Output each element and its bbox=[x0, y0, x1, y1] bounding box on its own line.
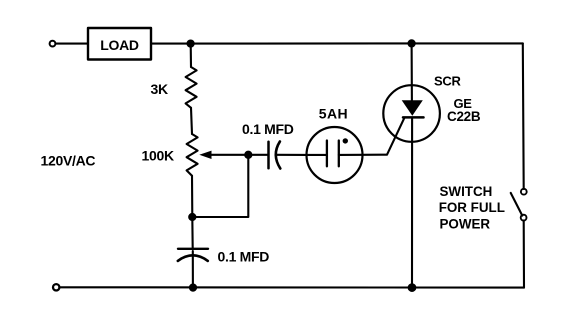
terminal top-left bbox=[50, 41, 56, 47]
svg-text:LOAD: LOAD bbox=[100, 37, 139, 53]
wire junction down to capacitor C2 bbox=[191, 217, 193, 249]
svg-text:0.1 MFD: 0.1 MFD bbox=[218, 249, 270, 265]
trigger device gas dot bbox=[343, 138, 348, 143]
wire LOAD to top-right corner (top rail) bbox=[152, 42, 523, 44]
resistor R1 3K bbox=[186, 67, 197, 108]
svg-text:POWER: POWER bbox=[440, 216, 491, 231]
wire switch to bottom rail bbox=[523, 221, 525, 288]
wire 3K to 100K bbox=[191, 108, 192, 134]
wire junction down to 3K bbox=[190, 44, 192, 67]
svg-text:SWITCH: SWITCH bbox=[440, 184, 493, 199]
trigger device V1 5AH circle bbox=[307, 127, 363, 183]
wire gate from trigger device to SCR bbox=[362, 118, 404, 155]
SCR U1 circle bbox=[383, 85, 440, 142]
switch S1 bottom contact bbox=[521, 215, 527, 221]
potentiometer R2 100K bbox=[187, 134, 198, 176]
wiper wire bbox=[209, 154, 248, 156]
SCR triangle bbox=[402, 100, 423, 116]
LOAD box bbox=[88, 28, 151, 60]
svg-text:3K: 3K bbox=[151, 81, 168, 97]
trigger device internal right plate bbox=[338, 141, 340, 167]
node pot bottom junction bbox=[189, 214, 195, 220]
svg-text:0.1 MFD: 0.1 MFD bbox=[242, 121, 294, 137]
switch S1 blade bbox=[511, 193, 523, 216]
SCR anode wire bbox=[411, 43, 413, 101]
trigger device internal right lead bbox=[339, 154, 363, 156]
capacitor C1 0.1 MFD curved plate bbox=[276, 142, 281, 169]
svg-text:100K: 100K bbox=[142, 147, 174, 163]
node wiper junction bbox=[245, 152, 251, 158]
SCR cathode bar bbox=[403, 116, 424, 119]
capacitor C2 0.1 MFD top plate bbox=[178, 248, 208, 250]
terminal bottom-left bbox=[53, 284, 59, 290]
svg-text:SCR: SCR bbox=[434, 74, 461, 89]
wiper arrowhead bbox=[199, 151, 211, 159]
node top junction at 3K bbox=[188, 41, 194, 47]
capacitor C2 0.1 MFD curved plate bbox=[178, 255, 208, 261]
wire terminal to LOAD bbox=[56, 43, 87, 45]
svg-text:FOR FULL: FOR FULL bbox=[439, 200, 505, 215]
switch S1 top contact bbox=[521, 189, 527, 195]
node bottom junction at SCR cathode bbox=[409, 284, 416, 291]
wire wiper junction to capacitor C1 bbox=[248, 154, 268, 156]
wire capacitor C1 to trigger device bbox=[276, 154, 307, 156]
bottom rail wire bbox=[60, 286, 524, 288]
wire pot bottom bbox=[191, 176, 193, 217]
svg-text:120V/AC: 120V/AC bbox=[41, 152, 96, 168]
svg-text:5AH: 5AH bbox=[319, 106, 348, 122]
node top junction at SCR anode bbox=[409, 40, 415, 46]
capacitor C1 0.1 MFD straight plate bbox=[267, 142, 270, 168]
node bottom junction at C2 bbox=[190, 285, 196, 291]
SCR cathode wire to bottom rail bbox=[411, 117, 413, 287]
trigger device internal left plate bbox=[326, 141, 328, 167]
wire right rail top to switch bbox=[522, 43, 525, 189]
wire wiper junction down and left to pot bottom bbox=[192, 155, 248, 217]
wire capacitor C2 to bottom rail bbox=[192, 251, 194, 288]
svg-text:C22B: C22B bbox=[447, 109, 481, 124]
trigger device internal left lead bbox=[307, 154, 327, 156]
